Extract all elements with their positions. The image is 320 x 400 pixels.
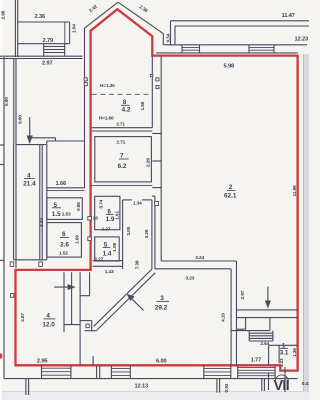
bracket vertical inner [174, 26, 176, 45]
room 1 niche wall left [268, 345, 270, 365]
svg-text:3.1: 3.1 [280, 349, 289, 356]
top-left main wall inner [0, 58, 83, 60]
svg-text:3.23: 3.23 [39, 218, 45, 227]
room 1.66 bottom wall second [47, 190, 85, 192]
wall tick y164 [0, 164, 4, 166]
window W1 [42, 367, 71, 369]
room 6 (1.9) box [95, 196, 120, 229]
left facade wall [3, 57, 5, 379]
room 4 (21.4) right wall b [41, 145, 43, 260]
duct tie y295.7 [80, 295, 90, 297]
room2 bottom wall outer [161, 260, 236, 262]
room2 bottom wall inner [155, 268, 231, 270]
entry arrow right [54, 286, 72, 288]
door squares pair left of red at x85 [84, 78, 87, 81]
stair arrow down [267, 287, 269, 304]
room 4 (21.4) bottom wall [14, 259, 47, 261]
room 4 (21.4) left wall [13, 145, 15, 260]
room4 top wall inner [16, 144, 46, 146]
door square x154 [155, 202, 159, 206]
duct column v2 [71, 272, 73, 324]
wall room8/room7 outer [92, 127, 153, 129]
door square on red y218 [88, 217, 92, 221]
gable left slope [84, 2, 118, 28]
svg-text:29.2: 29.2 [155, 305, 168, 312]
jog tie [152, 195, 155, 197]
door square on red y238 [88, 237, 92, 241]
stub below wall x262 [261, 379, 263, 391]
entrance door line [284, 367, 286, 392]
balcony top-left right edge [69, 22, 71, 44]
wall room8/room7 inner [92, 130, 153, 132]
room 1.66 top wall [47, 140, 85, 142]
svg-text:2.95: 2.95 [37, 359, 47, 365]
svg-text:62.1: 62.1 [224, 192, 237, 199]
svg-text:0.98: 0.98 [76, 202, 82, 211]
door square on red left vertical [11, 294, 14, 298]
svg-text:11.47: 11.47 [282, 13, 295, 19]
bracket vertical outer [170, 21, 172, 45]
svg-text:2.97: 2.97 [42, 61, 52, 67]
wall x152 vertical [151, 56, 153, 128]
svg-text:0.47: 0.47 [302, 381, 309, 387]
wall stub pair below red [96, 365, 98, 378]
gable right base drop [162, 34, 164, 45]
svg-text:12.13: 12.13 [135, 383, 148, 389]
room 3 diagonal wall inner [97, 273, 155, 330]
window W5 [182, 46, 200, 48]
room 1.66 right wall [84, 29, 86, 188]
stair flight treads [249, 332, 273, 334]
room2 left wall x161 [160, 56, 162, 261]
room 8 dashed height line [92, 93, 150, 95]
top wall outer with windows [163, 44, 307, 46]
svg-text:5.98: 5.98 [224, 63, 234, 69]
svg-text:26: 26 [93, 216, 99, 222]
svg-text:1.43: 1.43 [105, 269, 114, 275]
stub below wall x217 [216, 379, 218, 393]
svg-text:1.52: 1.52 [59, 251, 68, 257]
duct tie y320.6 [80, 320, 92, 322]
balcony top-left top edge [18, 21, 70, 23]
svg-text:3: 3 [160, 295, 164, 302]
red left-edge fragment [0, 354, 2, 359]
svg-text:11.99: 11.99 [292, 185, 298, 196]
balcony top-left bottom edge [18, 43, 70, 45]
left neighbour wall outer [14, 0, 16, 57]
door square duct [86, 324, 89, 328]
right scan band [304, 54, 310, 400]
red apartment boundary [16, 9, 298, 370]
svg-text:2.97: 2.97 [240, 290, 246, 299]
jog wall x154.9 [154, 196, 156, 269]
door square room4 bottom [39, 262, 43, 267]
svg-text:2.71: 2.71 [116, 122, 125, 128]
window W4 wide hatch [238, 367, 275, 369]
stair right edge [269, 318, 271, 331]
door jamb line x268.5 [268, 374, 270, 391]
stub below wall x26 [25, 379, 27, 395]
svg-text:7.38: 7.38 [135, 260, 141, 269]
stair side tie [237, 328, 246, 330]
duct column v3 [79, 272, 81, 365]
door hinge square x151 [150, 74, 152, 76]
room 6 (2.6) box [47, 223, 82, 258]
tie wall x152-x161 [152, 187, 161, 189]
svg-text:21.4: 21.4 [23, 181, 36, 188]
cavity wall vertical [46, 141, 48, 260]
svg-text:1.27: 1.27 [95, 257, 104, 263]
svg-text:4.87: 4.87 [20, 313, 26, 322]
corridor top line segment b [142, 199, 152, 201]
room4 top wall outer [30, 137, 56, 139]
dimension line 11.47 outer [171, 20, 310, 22]
svg-text:H=1.30: H=1.30 [100, 83, 115, 89]
svg-text:5.90: 5.90 [4, 97, 10, 106]
left edge white strip [0, 0, 2, 400]
stair wall x231.1 [230, 269, 232, 366]
svg-text:3.28: 3.28 [144, 229, 150, 238]
dimension divider tick x93 [92, 356, 94, 365]
svg-text:3.24: 3.24 [195, 255, 204, 261]
tie wall x152-x161 mid [152, 160, 161, 162]
svg-text:1.4: 1.4 [103, 251, 112, 258]
entry arrow down left [29, 117, 31, 138]
room 1 top wall [269, 344, 298, 346]
balcony top-left inner vertical [64, 22, 66, 44]
stair wall x236.5 [236, 261, 238, 365]
svg-text:1.23: 1.23 [279, 358, 285, 367]
svg-text:2.71: 2.71 [116, 139, 125, 145]
landing bottom line [237, 317, 298, 319]
svg-text:1.69: 1.69 [75, 235, 81, 244]
svg-text:2.98: 2.98 [1, 10, 7, 19]
svg-text:2.29: 2.29 [146, 158, 152, 167]
stair side vertical x245.6 [245, 318, 247, 330]
svg-text:9.00: 9.00 [18, 115, 24, 124]
entrance VII arc [275, 375, 288, 382]
svg-text:1.56: 1.56 [140, 101, 146, 110]
bottom scan band [0, 392, 309, 400]
room 5 (1.4) box [95, 237, 120, 261]
wall tick y260 [0, 259, 4, 261]
wall below rooms b [93, 265, 123, 267]
svg-text:4.10: 4.10 [221, 313, 227, 322]
svg-text:1.61: 1.61 [114, 210, 120, 219]
wall tick y145 [0, 144, 4, 146]
window W3 [204, 367, 231, 369]
duct box bottom [85, 330, 98, 332]
room 1.66 bottom wall [47, 187, 85, 189]
room 7 (6.2) box [95, 137, 152, 182]
svg-text:1.34: 1.34 [133, 201, 142, 207]
left inner wall [15, 59, 17, 269]
left wall inner line [13, 59, 15, 145]
top wall inner [156, 52, 298, 54]
duct column v4 [89, 272, 91, 296]
svg-text:1.5: 1.5 [52, 211, 61, 218]
svg-text:2.79: 2.79 [43, 38, 53, 44]
svg-text:1.36: 1.36 [292, 348, 298, 357]
svg-text:3.00: 3.00 [126, 226, 132, 235]
svg-text:1.53: 1.53 [62, 211, 71, 217]
left neighbour wall inner [17, 0, 19, 57]
door square left wall [10, 262, 14, 267]
tie wall x152-x161 upper [152, 133, 161, 135]
bottom facade wall [4, 378, 298, 380]
room 5 (1.5) box [47, 198, 82, 220]
svg-text:2.6: 2.6 [60, 241, 69, 248]
gable right slope [118, 2, 163, 33]
window hatch top-left [44, 46, 65, 48]
window W6 [249, 46, 274, 48]
room 3 diagonal wall outer [94, 269, 152, 326]
svg-text:1.77: 1.77 [251, 358, 261, 364]
landing top line [237, 309, 298, 311]
stair mid line [231, 330, 270, 332]
svg-text:1.04: 1.04 [72, 24, 78, 33]
duct tie y324.6 [64, 324, 80, 326]
room 7 bottom second line [91, 184, 152, 186]
stair flight sides [248, 331, 250, 341]
svg-text:0.93: 0.93 [224, 383, 230, 392]
svg-text:2.36: 2.36 [35, 14, 45, 20]
svg-text:4.2: 4.2 [122, 107, 131, 114]
svg-text:VII: VII [274, 378, 290, 394]
svg-text:1.9: 1.9 [106, 216, 115, 223]
svg-text:6.00: 6.00 [156, 359, 166, 365]
svg-text:0.74: 0.74 [98, 199, 104, 208]
door squares pair at x156 [156, 78, 159, 81]
top-left main wall outer [0, 55, 83, 57]
room 3 arrow NW [129, 296, 144, 310]
svg-text:1.08: 1.08 [112, 242, 118, 251]
wall below rooms a [93, 260, 123, 262]
duct box vertical x91.7 [91, 321, 93, 331]
svg-text:H=1.60: H=1.60 [99, 115, 114, 121]
window W2 [111, 367, 130, 369]
room4 top wall outer drop [55, 138, 57, 141]
svg-text:12.0: 12.0 [42, 321, 55, 328]
svg-text:6.2: 6.2 [118, 163, 127, 170]
duct column v1 [63, 272, 65, 332]
room 4 (21.4) right wall a [39, 145, 41, 260]
svg-text:1.66: 1.66 [56, 181, 66, 187]
dimension line 12.23 inner [175, 25, 309, 27]
corridor right wall [151, 200, 153, 269]
corridor top line segment a [123, 199, 132, 201]
svg-text:1.27: 1.27 [102, 227, 111, 233]
corridor left wall [122, 200, 124, 269]
room 1 left wall [278, 345, 280, 363]
svg-text:12.23: 12.23 [295, 37, 308, 43]
svg-text:3.23: 3.23 [186, 276, 195, 282]
